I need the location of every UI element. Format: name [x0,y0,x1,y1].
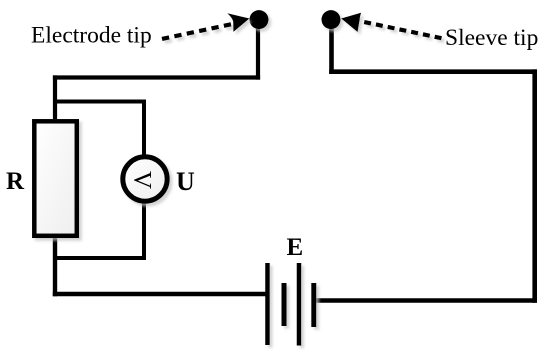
wire: vertical from electrode tip dot down to top-left bus [256,19,260,80]
wire: bottom-right horizontal to battery negative plate [316,298,537,303]
battery E plate short 2 [311,283,316,327]
svg-text:V: V [128,171,155,189]
voltmeter U [123,157,167,201]
dashed arrow to electrode tip [162,13,249,39]
dashed arrow to sleeve tip [341,13,441,39]
wire: voltmeter bottom branch vertical from meter down [142,201,146,260]
electrode tip dot [250,10,269,29]
svg-text:U: U [176,167,195,196]
svg-text:Sleeve tip: Sleeve tip [445,25,538,51]
svg-text:Electrode tip: Electrode tip [31,23,152,49]
wire: right side vertical [532,69,537,302]
wire: vertical down to resistor R top [53,75,57,119]
svg-text:E: E [287,234,304,261]
wire: voltmeter top branch horizontal from node at left vertical [53,100,146,104]
resistor R [34,121,77,236]
wire: bottom-left horizontal to battery positive plate [53,292,266,296]
wire: top-left horizontal bus [53,75,260,79]
svg-text:R: R [6,168,25,195]
wire: top-right horizontal bus [329,69,537,74]
wire: voltmeter bottom branch horizontal to node at left vertical [53,256,146,260]
battery E plate short 1 [282,283,287,326]
wire: vertical from resistor R bottom down to bottom-left corner [53,236,57,296]
battery E plate long 1 [265,263,270,345]
sleeve tip dot [322,10,341,29]
battery E plate long 2 [297,263,302,346]
wire: voltmeter top branch vertical down to meter [142,100,146,158]
wire: vertical from sleeve tip dot down to top-right bus [329,19,334,74]
